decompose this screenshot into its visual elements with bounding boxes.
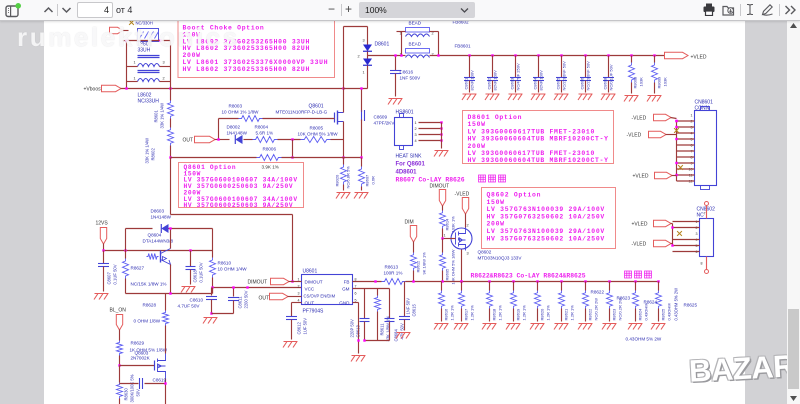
svg-text:1.2R 1%: 1.2R 1% bbox=[470, 305, 475, 321]
svg-text:MTE011N10RFP-D-LB-G: MTE011N10RFP-D-LB-G bbox=[276, 110, 328, 115]
svg-text:3.9K 1%: 3.9K 1% bbox=[262, 165, 279, 170]
svg-text:R8607 Co-LAY R8626: R8607 Co-LAY R8626 bbox=[396, 177, 465, 184]
svg-text:R8625: R8625 bbox=[661, 308, 666, 321]
option note Boost Choke Option bbox=[178, 20, 335, 78]
svg-text:R8616: R8616 bbox=[444, 308, 449, 321]
capacitor C8607 bbox=[103, 251, 105, 264]
svg-text:2: 2 bbox=[163, 77, 165, 81]
capacitor C8684 bbox=[385, 318, 395, 320]
resistor R8614 bbox=[442, 206, 444, 211]
svg-text:R8619: R8619 bbox=[516, 308, 521, 321]
svg-text:R8622&R8623 Co-LAY R8624&R8625: R8622&R8623 Co-LAY R8624&R8625 bbox=[471, 273, 586, 280]
resistor R8020 bbox=[343, 158, 345, 165]
svg-text:DIMOUT: DIMOUT bbox=[305, 280, 323, 285]
svg-text:-VLED: -VLED bbox=[627, 133, 642, 139]
transistor Q8602 bbox=[451, 228, 472, 249]
svg-text:D8603: D8603 bbox=[151, 209, 165, 214]
ground for R8620 bbox=[530, 324, 545, 330]
svg-text:1: 1 bbox=[363, 71, 365, 75]
ground for C8612 bbox=[283, 342, 298, 348]
capacitor C8612 bbox=[286, 316, 297, 318]
net stub arrow top-left bbox=[110, 27, 124, 33]
svg-text:7: 7 bbox=[355, 285, 357, 289]
svg-text:R8602: R8602 bbox=[151, 147, 156, 160]
svg-text:NC/6.8R 5%: NC/6.8R 5% bbox=[346, 166, 351, 189]
svg-text:2200 50V: 2200 50V bbox=[244, 290, 249, 308]
resistor R8622 bbox=[585, 282, 587, 291]
svg-text:C8615: C8615 bbox=[412, 303, 417, 316]
svg-text:4D8601: 4D8601 bbox=[396, 170, 418, 176]
svg-text:NC/0.2R 2W: NC/0.2R 2W bbox=[594, 298, 599, 321]
option note Q8601 Option bbox=[179, 163, 304, 208]
wire Q8603 drain/source trunk bbox=[165, 294, 167, 311]
svg-text:R8623: R8623 bbox=[617, 296, 631, 301]
svg-text:10 OHM 1% 1/8W: 10 OHM 1% 1/8W bbox=[222, 110, 260, 115]
ground for C8616 bbox=[388, 99, 403, 105]
svg-text:1.2R 1%: 1.2R 1% bbox=[570, 305, 575, 321]
capacitor C8606 bbox=[584, 54, 586, 56]
svg-text:HV 357G0763250602 10A/250V: HV 357G0763250602 10A/250V bbox=[487, 235, 605, 242]
svg-text:PF7904S: PF7904S bbox=[303, 309, 325, 315]
ground for R8616a bbox=[434, 324, 449, 330]
svg-text:HV 393G0060604TUB MBRF10200CT-: HV 393G0060604TUB MBRF10200CT-Y bbox=[468, 157, 609, 164]
svg-text:3: 3 bbox=[363, 39, 365, 43]
wire R8004 junction down bbox=[292, 140, 294, 158]
svg-text:C8612: C8612 bbox=[297, 321, 302, 334]
svg-text:R8624: R8624 bbox=[644, 300, 658, 305]
svg-text:R8628: R8628 bbox=[143, 303, 157, 308]
svg-text:OUT: OUT bbox=[259, 296, 270, 302]
svg-text:1.2R 1%: 1.2R 1% bbox=[546, 305, 551, 321]
svg-text:2: 2 bbox=[432, 32, 434, 36]
resistor R8620 bbox=[537, 282, 539, 291]
svg-text:+VLED: +VLED bbox=[633, 174, 649, 180]
svg-text:R8611: R8611 bbox=[380, 323, 385, 336]
svg-text:10K OHM 5% 1/8W: 10K OHM 5% 1/8W bbox=[298, 132, 339, 137]
svg-text:R8005: R8005 bbox=[310, 126, 324, 131]
svg-text:3: 3 bbox=[467, 252, 469, 256]
svg-text:R8621: R8621 bbox=[564, 308, 569, 321]
svg-text:U8601: U8601 bbox=[303, 269, 318, 275]
svg-text:C8603: C8603 bbox=[510, 77, 515, 90]
resistor R8611 bbox=[375, 296, 381, 312]
capacitor C8619 bbox=[120, 383, 139, 385]
wire VCC rail y287 bbox=[213, 287, 302, 289]
svg-text:0.43OHM 5% 2W: 0.43OHM 5% 2W bbox=[626, 337, 662, 342]
svg-text:GM: GM bbox=[342, 287, 350, 292]
svg-text:C8604: C8604 bbox=[533, 77, 538, 90]
svg-text:-VLED: -VLED bbox=[455, 192, 470, 198]
svg-text:1N4148W: 1N4148W bbox=[227, 131, 248, 136]
wire Q8602 gate bbox=[443, 238, 456, 240]
ground for R8619 bbox=[506, 324, 521, 330]
net +VLED top bbox=[665, 52, 689, 58]
ground for R8009 bbox=[647, 96, 662, 102]
wire +Vboost rail y88 bbox=[121, 88, 344, 90]
resistor R8601 bbox=[170, 82, 172, 101]
svg-text:HV 357G0763250602 10A/250V: HV 357G0763250602 10A/250V bbox=[487, 213, 605, 220]
svg-text:0.1UF 50V: 0.1UF 50V bbox=[113, 264, 118, 284]
svg-text:NC/47NF 250V: NC/47NF 250V bbox=[516, 63, 521, 90]
no-connect X on CN8601 pin11 bbox=[678, 165, 683, 170]
svg-text:33K 1% 1/4W: 33K 1% 1/4W bbox=[145, 138, 150, 164]
svg-text:HV 357G0600250603 9A/250V: HV 357G0600250603 9A/250V bbox=[184, 202, 294, 209]
svg-text:C8611: C8611 bbox=[238, 296, 243, 309]
PDF viewer toolbar bbox=[0, 0, 800, 21]
svg-text:103K: 103K bbox=[639, 77, 644, 87]
capacitor C8603 bbox=[514, 54, 516, 56]
ground for heatsink bbox=[434, 151, 449, 157]
svg-text:D8002: D8002 bbox=[227, 125, 241, 130]
resistor R8625 bbox=[658, 282, 660, 291]
svg-text:C8610: C8610 bbox=[190, 298, 204, 303]
resistor R8623 bbox=[609, 282, 611, 291]
svg-text:R8008: R8008 bbox=[633, 76, 638, 89]
svg-text:1: 1 bbox=[134, 61, 136, 65]
svg-text:R8624: R8624 bbox=[638, 308, 643, 321]
resistor R8607 bbox=[359, 167, 365, 187]
svg-text:HV L8602 373G0253365H00 82UH: HV L8602 373G0253365H00 82UH bbox=[183, 66, 311, 73]
svg-text:300K/100K 5%: 300K/100K 5% bbox=[130, 374, 135, 402]
svg-text:C8609: C8609 bbox=[374, 115, 388, 120]
ground for C8606 bbox=[578, 94, 593, 100]
svg-text:LV 393G0060617TUB FMET-23010: LV 393G0060617TUB FMET-23010 bbox=[468, 150, 596, 157]
wire winding1 stubs bbox=[126, 41, 128, 67]
svg-text:MTD03N10QJ3 133V: MTD03N10QJ3 133V bbox=[478, 256, 523, 261]
svg-text:200W: 200W bbox=[468, 143, 486, 150]
svg-text:9K 1/8W 1%: 9K 1/8W 1% bbox=[422, 252, 427, 275]
svg-text:+VLED: +VLED bbox=[632, 222, 648, 228]
svg-text:4: 4 bbox=[298, 299, 300, 303]
svg-text:R8610: R8610 bbox=[218, 261, 232, 266]
svg-text:3: 3 bbox=[298, 292, 300, 296]
svg-text:HS8601: HS8601 bbox=[396, 110, 414, 116]
wire -VLED to Q8602 drain bbox=[465, 214, 467, 228]
capacitor C8605 bbox=[560, 54, 562, 56]
resistor R8621 bbox=[561, 282, 563, 291]
svg-text:1: 1 bbox=[691, 114, 693, 118]
svg-text:2: 2 bbox=[298, 285, 300, 289]
svg-text:0.43OHM: 0.43OHM bbox=[644, 303, 649, 320]
svg-text:NC/15K 1/8W 1%: NC/15K 1/8W 1% bbox=[131, 282, 167, 287]
svg-text:LV 357G763N100039 29A/100V: LV 357G763N100039 29A/100V bbox=[487, 228, 605, 235]
svg-text:C8606: C8606 bbox=[580, 77, 585, 90]
ground for C8604 bbox=[531, 94, 546, 100]
svg-text:82NF 100V: 82NF 100V bbox=[470, 70, 475, 91]
wire Q8604 loop bbox=[125, 251, 127, 259]
svg-text:47PF/2KV: 47PF/2KV bbox=[374, 121, 396, 126]
capacitor C8604 bbox=[537, 54, 539, 56]
ground for R8617a bbox=[454, 324, 469, 330]
svg-text:R8622: R8622 bbox=[591, 290, 605, 295]
svg-text:FB: FB bbox=[344, 280, 350, 285]
svg-text:0 OHM 1/8W: 0 OHM 1/8W bbox=[134, 319, 161, 324]
svg-text:R8620: R8620 bbox=[540, 308, 545, 321]
svg-text:R8625: R8625 bbox=[684, 303, 698, 308]
wire 12VS rail y250 bbox=[103, 244, 105, 251]
svg-text:R8613: R8613 bbox=[385, 265, 399, 270]
svg-text:R8617: R8617 bbox=[464, 308, 469, 321]
wire heatsink drop bbox=[361, 89, 363, 111]
svg-text:0.43OHM: 0.43OHM bbox=[667, 303, 672, 320]
svg-text:0.6R: 0.6R bbox=[371, 176, 376, 185]
svg-text:1NF 50V: 1NF 50V bbox=[406, 298, 411, 315]
svg-text:R8009: R8009 bbox=[657, 76, 662, 89]
svg-text:1UF 50V: 1UF 50V bbox=[303, 318, 308, 335]
node NC/330H marker bbox=[129, 20, 134, 25]
capacitor C8616 bbox=[395, 56, 397, 71]
svg-text:220P 50V: 220P 50V bbox=[350, 319, 355, 338]
svg-text:DIMOUT: DIMOUT bbox=[248, 280, 268, 286]
ground for C8601 bbox=[462, 94, 477, 100]
wire CN8601 pin stubs bbox=[677, 120, 695, 122]
capacitor C8618 bbox=[190, 251, 192, 267]
svg-text:2: 2 bbox=[467, 224, 469, 228]
svg-text:NC/2200NF 50V: NC/2200NF 50V bbox=[586, 61, 591, 91]
svg-text:NC/0.1UF 50V: NC/0.1UF 50V bbox=[609, 64, 614, 90]
svg-text:Q8604: Q8604 bbox=[148, 233, 162, 238]
capacitor C8610 bbox=[211, 288, 213, 296]
svg-text:+Vboost: +Vboost bbox=[84, 87, 103, 93]
svg-text:6: 6 bbox=[355, 292, 357, 296]
svg-text:103K: 103K bbox=[663, 77, 668, 87]
svg-text:82NF 100V: 82NF 100V bbox=[539, 70, 544, 91]
svg-text:1.2R 1%: 1.2R 1% bbox=[522, 305, 527, 321]
svg-text:C8608: C8608 bbox=[603, 77, 608, 90]
svg-text:For Q8601: For Q8601 bbox=[396, 162, 426, 168]
wire winding2 stubs bbox=[126, 67, 128, 89]
ground for R8624 bbox=[628, 324, 643, 330]
svg-text:HV 393G0060604TUB MBRF10200CT-: HV 393G0060604TUB MBRF10200CT-Y bbox=[468, 136, 609, 143]
svg-text:R8622: R8622 bbox=[588, 308, 593, 321]
svg-text:150W: 150W bbox=[487, 199, 505, 206]
wire top rail y40 bbox=[123, 40, 171, 42]
svg-text:200W: 200W bbox=[487, 221, 505, 228]
svg-text:NC/33UH: NC/33UH bbox=[138, 99, 160, 105]
svg-text:DIMOUT: DIMOUT bbox=[430, 184, 450, 190]
svg-text:LV 393G0060617TUB FMET-23010: LV 393G0060617TUB FMET-23010 bbox=[468, 128, 596, 135]
svg-text:100R 1%: 100R 1% bbox=[384, 271, 403, 276]
svg-text:Q8602: Q8602 bbox=[478, 250, 492, 255]
svg-text:82NF 100V: 82NF 100V bbox=[493, 70, 498, 91]
svg-text:10K OHM 5% 1/8W: 10K OHM 5% 1/8W bbox=[451, 249, 456, 284]
resistor R8629 bbox=[117, 341, 123, 356]
option note D8601 Option bbox=[463, 111, 614, 164]
svg-text:R8618: R8618 bbox=[492, 308, 497, 321]
svg-text:2: 2 bbox=[415, 127, 417, 131]
svg-text:1NF 500V: 1NF 500V bbox=[400, 76, 422, 81]
svg-text:DTA144WN3/8: DTA144WN3/8 bbox=[143, 239, 174, 244]
svg-text:+VLED: +VLED bbox=[691, 55, 707, 61]
svg-text:R8629: R8629 bbox=[131, 341, 145, 346]
wire D8601 anode down bbox=[367, 73, 369, 89]
wire CN8602 stubs bbox=[672, 224, 674, 246]
resistor R8624 bbox=[635, 282, 637, 291]
resistor R8605 bbox=[442, 239, 444, 253]
wire source rail y139 bbox=[215, 139, 230, 141]
capacitor C8613 bbox=[360, 318, 370, 320]
svg-text:1.2R 1%: 1.2R 1% bbox=[498, 305, 503, 321]
wire OUT pin to C8612 bbox=[292, 302, 302, 304]
ground for R8008 bbox=[624, 96, 639, 102]
svg-text:10 OHM 1/4W: 10 OHM 1/4W bbox=[218, 267, 248, 272]
ground for C8618 bbox=[181, 287, 196, 293]
wire FB rail y281 bbox=[353, 281, 382, 283]
svg-text:7: 7 bbox=[704, 212, 706, 216]
svg-text:VCC: VCC bbox=[305, 287, 315, 292]
resistor R8627 bbox=[123, 259, 129, 279]
capacitor C8611 bbox=[233, 288, 235, 297]
svg-text:R8612: R8612 bbox=[416, 260, 421, 273]
resistor R8610 bbox=[210, 258, 216, 278]
svg-text:R8607: R8607 bbox=[365, 174, 370, 187]
resistor R8619 bbox=[513, 282, 515, 291]
wire Q8602 source down bbox=[461, 250, 463, 282]
no-connect X on CN8601 pin4 bbox=[674, 128, 679, 133]
capacitor C8615 bbox=[404, 282, 406, 317]
svg-text:Q8602 Option: Q8602 Option bbox=[487, 192, 542, 199]
svg-text:1: 1 bbox=[415, 121, 417, 125]
resistor R8628 bbox=[163, 311, 169, 326]
wire boost drain loop bbox=[343, 27, 345, 109]
svg-text:3: 3 bbox=[415, 133, 417, 137]
wire +VLED rail y55 bbox=[402, 55, 406, 57]
no-connect X on CN8602 pin4 bbox=[677, 231, 682, 236]
wire BL_ON down bbox=[119, 330, 121, 341]
svg-text:C8605: C8605 bbox=[556, 77, 561, 90]
svg-text:BEAD: BEAD bbox=[409, 42, 422, 47]
ground for R8622 bbox=[578, 324, 593, 330]
svg-text:50V: 50V bbox=[136, 389, 141, 397]
svg-text:C8618: C8618 bbox=[193, 269, 198, 282]
svg-text:0.1UF 50V: 0.1UF 50V bbox=[199, 262, 204, 282]
wire Q8601 source down bbox=[343, 125, 345, 140]
svg-text:5.6R 1%: 5.6R 1% bbox=[256, 131, 274, 136]
svg-text:12VS: 12VS bbox=[96, 221, 109, 227]
svg-text:1N4148W: 1N4148W bbox=[151, 215, 172, 220]
svg-text:33K 1% 1/4W: 33K 1% 1/4W bbox=[160, 103, 165, 129]
svg-text:-VLED: -VLED bbox=[632, 242, 647, 248]
svg-text:1: 1 bbox=[134, 77, 136, 81]
svg-text:C8619: C8619 bbox=[153, 378, 167, 383]
svg-text:DIM: DIM bbox=[405, 220, 414, 226]
wire GM rail bbox=[353, 288, 390, 290]
svg-text:1.2R 1%: 1.2R 1% bbox=[450, 305, 455, 321]
ground for R8020 bbox=[336, 193, 351, 199]
ground for C8603 bbox=[508, 94, 523, 100]
resistor R8616a sense pair bbox=[441, 282, 443, 291]
svg-text:FB8601: FB8601 bbox=[455, 44, 472, 49]
svg-text:5: 5 bbox=[355, 299, 357, 303]
capacitor C8608 bbox=[607, 54, 609, 56]
svg-text:NC/0.2R 2W: NC/0.2R 2W bbox=[618, 298, 623, 321]
transformer winding 2 of L8602 bbox=[138, 70, 160, 72]
svg-text:D8601 Option: D8601 Option bbox=[468, 114, 523, 121]
ground for C8602 bbox=[485, 94, 500, 100]
svg-text:LV 357G763N100039 29A/100V: LV 357G763N100039 29A/100V bbox=[487, 206, 605, 213]
svg-text:4.7UF 50V: 4.7UF 50V bbox=[178, 304, 201, 309]
wire GND bottom rail bbox=[365, 340, 390, 342]
svg-text:OUT: OUT bbox=[305, 301, 315, 306]
ground for R8607 bbox=[354, 193, 369, 199]
svg-text:2N7002K: 2N7002K bbox=[131, 356, 151, 361]
svg-text:R8605: R8605 bbox=[445, 268, 450, 281]
ground for C8610 bbox=[203, 318, 218, 324]
ground for R8618 bbox=[482, 324, 497, 330]
ground for R8621 bbox=[554, 324, 569, 330]
resistor R8008 bbox=[630, 54, 632, 56]
junction node FB divider bbox=[169, 156, 171, 158]
svg-text:R8627: R8627 bbox=[131, 266, 145, 271]
svg-text:0.43OHM 5% 2W: 0.43OHM 5% 2W bbox=[674, 288, 679, 321]
svg-text:4: 4 bbox=[415, 139, 417, 143]
wire gate corner bbox=[218, 119, 220, 140]
ground for C8608 bbox=[601, 94, 616, 100]
svg-text:-VLED: -VLED bbox=[632, 116, 647, 122]
svg-text:HEAT SINK: HEAT SINK bbox=[396, 154, 423, 160]
svg-text:OUT: OUT bbox=[183, 138, 194, 144]
resistor R8612 bbox=[413, 242, 415, 253]
svg-text:D8601: D8601 bbox=[375, 42, 390, 48]
svg-text:BEAD: BEAD bbox=[409, 21, 422, 26]
ground for C8607 bbox=[94, 294, 109, 300]
svg-text:R8004: R8004 bbox=[255, 125, 269, 130]
option note Q8602 Option bbox=[482, 188, 616, 249]
svg-text:3: 3 bbox=[696, 232, 698, 236]
svg-text:CS/OVP EN/DIM: CS/OVP EN/DIM bbox=[304, 294, 336, 299]
svg-text:8: 8 bbox=[355, 278, 357, 282]
resistor R8618 bbox=[489, 282, 491, 291]
svg-text:R8630: R8630 bbox=[124, 387, 129, 400]
svg-text:2: 2 bbox=[358, 55, 360, 59]
svg-text:GND: GND bbox=[339, 301, 350, 306]
resistor R8009 bbox=[653, 54, 655, 56]
resistor R8617a sense pair bbox=[461, 282, 463, 291]
svg-text:C8602: C8602 bbox=[487, 77, 492, 90]
svg-text:R8601: R8601 bbox=[154, 109, 159, 122]
ground for U8601 bbox=[351, 356, 366, 362]
ground for R8625 bbox=[651, 324, 666, 330]
svg-text:R8623: R8623 bbox=[612, 308, 617, 321]
ground for C8605 bbox=[554, 94, 569, 100]
wire Q8604 emitter/collector bbox=[170, 229, 172, 249]
capacitor C8601 bbox=[468, 54, 470, 56]
resistor R8602 bbox=[170, 119, 172, 128]
svg-text:C8601: C8601 bbox=[464, 77, 469, 90]
capacitor C8609 bbox=[361, 110, 363, 121]
svg-text:3: 3 bbox=[163, 61, 165, 65]
svg-text:C8607: C8607 bbox=[107, 271, 112, 284]
common-mode choke L8601 bbox=[138, 29, 159, 42]
wire gate rail y365 bbox=[118, 364, 120, 366]
wire FB divider to DIMOUT net bbox=[170, 158, 172, 215]
svg-text:8: 8 bbox=[701, 262, 703, 266]
ground for R8623 bbox=[602, 324, 617, 330]
svg-text:R8006: R8006 bbox=[263, 147, 277, 152]
ground for C8615 bbox=[396, 333, 411, 339]
svg-text:C8616: C8616 bbox=[400, 70, 414, 75]
capacitor C8602 bbox=[491, 54, 493, 56]
svg-text:1: 1 bbox=[444, 234, 446, 238]
svg-text:R8020: R8020 bbox=[335, 174, 340, 187]
resistor R8630 bbox=[117, 383, 123, 399]
transformer winding 1 of L8601 bbox=[138, 55, 160, 57]
svg-text:1: 1 bbox=[298, 278, 300, 282]
wire bead top loop bbox=[401, 32, 403, 56]
svg-text:NC/2200NF 50V: NC/2200NF 50V bbox=[562, 61, 567, 91]
svg-text:150W: 150W bbox=[468, 121, 486, 128]
svg-text:R8614: R8614 bbox=[445, 218, 450, 231]
